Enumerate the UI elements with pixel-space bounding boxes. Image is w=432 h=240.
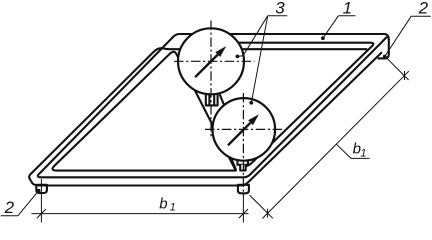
needle of lower dial (228, 123, 251, 146)
tick right (239, 209, 248, 218)
leader from 3 to upper dial (237, 16, 267, 57)
frame 1: outer outline of parallelogram plate (38, 34, 389, 177)
plate thickness line: bottom edge and right edge (31, 52, 382, 185)
extension line from top-right foot (386, 57, 409, 80)
svg-text:1: 1 (170, 202, 176, 214)
svg-text:2: 2 (418, 0, 429, 18)
tick lower (267, 209, 269, 218)
svg-text:1: 1 (360, 148, 366, 160)
dimension line b1 bottom (32, 213, 249, 215)
leader from 3 to lower dial (251, 16, 267, 103)
diagonal bar left edge lower end (wedge) (231, 158, 236, 170)
svg-text:3: 3 (275, 0, 285, 18)
extension line left (bottom dimension) (40, 179, 42, 223)
dimension line b1 right (262, 71, 408, 218)
dial indicator 3 (lower) stem (237, 150, 248, 165)
dial indicator 3 (upper) stem (206, 90, 218, 105)
centerline horizontal of lower dial (205, 128, 284, 130)
plate thickness line: left edge + through-hole line under top edge (29, 48, 367, 181)
dial indicator 3 (upper) body U1 (178, 28, 244, 94)
svg-text:2: 2 (4, 198, 15, 217)
extension line from bottom-right foot (250, 195, 273, 218)
svg-text:1: 1 (343, 0, 352, 18)
frame: inner edge of triangular left opening (hole bottom, left hypotenuse, diagonal bar edge) (53, 52, 236, 171)
centerline horizontal of upper dial (174, 60, 255, 62)
diagonal bar right edge (199, 43, 247, 161)
foot (support) at bottom-right corner (238, 185, 249, 194)
tick upper (404, 71, 406, 80)
svg-text:b: b (159, 195, 167, 212)
tick left (37, 209, 46, 218)
foot (support) at top-right corner (378, 42, 389, 58)
shelf leader for b1 right (336, 144, 369, 158)
centerline vertical of upper dial (210, 21, 212, 140)
frame: inner edge of right opening (hole top, right edge) (199, 43, 374, 167)
centerline vertical of lower dial / extension line (242, 93, 244, 196)
needle of upper dial (195, 55, 218, 78)
foot (support) at bottom-left corner (36, 185, 47, 193)
dial indicator 3 (lower) body U2 (213, 98, 276, 161)
